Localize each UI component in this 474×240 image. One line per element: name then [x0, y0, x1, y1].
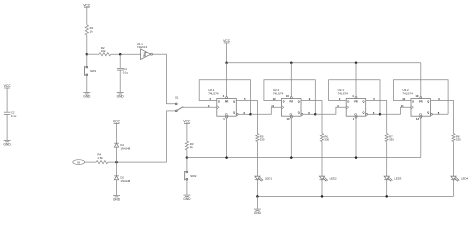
pin CLK U2.1 — [208, 104, 210, 108]
pin D U2.2 — [273, 97, 276, 101]
wire — [453, 180, 455, 197]
wire LED cathode rail — [257, 195, 453, 197]
ground (under SW1) — [83, 93, 91, 99]
node cathode rail GND tap — [256, 195, 259, 198]
node debounce junction — [86, 53, 89, 56]
svg-text:330: 330 — [389, 138, 394, 142]
node CLR net — [186, 156, 189, 159]
node Q-bar junction U2.1 — [249, 113, 252, 116]
svg-text:LED4: LED4 — [461, 176, 468, 180]
wire clock link to next stage — [380, 107, 411, 114]
wire — [256, 142, 258, 177]
resistor R6 330 — [320, 134, 329, 142]
connector IN — [73, 160, 85, 165]
pin PRE bubble U3.1 — [352, 94, 357, 98]
wire — [386, 180, 388, 197]
wire Q output — [236, 101, 257, 134]
pin CLR bubble U3.1 — [353, 116, 357, 121]
pin Q-bar bubble U3.1 — [366, 111, 375, 115]
svg-text:74LS74: 74LS74 — [338, 91, 349, 95]
wire Q-bar to D feedback loop U3.2 — [393, 80, 448, 115]
ground (LED return) — [254, 209, 262, 215]
diode D2 1N4148 — [114, 176, 131, 183]
wire — [86, 7, 88, 25]
ground (under D2) — [113, 196, 121, 202]
svg-text:S1: S1 — [175, 95, 179, 99]
wire — [186, 123, 188, 141]
svg-text:74LS74: 74LS74 — [273, 91, 284, 95]
wire Q output — [366, 101, 387, 134]
wire PRE stub — [420, 63, 422, 97]
svg-text:1N4148: 1N4148 — [120, 179, 130, 183]
svg-text:Q: Q — [298, 112, 300, 115]
svg-text:12: 12 — [273, 97, 276, 101]
svg-text:Q: Q — [362, 112, 364, 115]
svg-text:Q: Q — [233, 100, 235, 103]
pin D U2.1 — [210, 97, 212, 101]
wire CLR stub — [290, 118, 292, 158]
wire Q output — [431, 101, 454, 134]
wire — [85, 161, 97, 163]
wire — [116, 147, 118, 162]
LED LED1 — [255, 176, 273, 181]
ground (under C1) — [117, 93, 125, 99]
wire Q-bar to D feedback loop U2.2 — [264, 80, 315, 115]
svg-text:1k: 1k — [190, 145, 194, 149]
svg-text:SW2: SW2 — [190, 174, 197, 178]
capacitor C2 0.1u — [4, 111, 17, 118]
resistor R2 — [99, 46, 111, 56]
svg-text:LED2: LED2 — [330, 176, 337, 180]
wire — [6, 88, 8, 112]
svg-text:D: D — [348, 100, 350, 103]
flip-flop U3.2 74LS74 — [402, 88, 430, 116]
power VCC (debounce) — [83, 3, 91, 7]
wire Q output — [301, 101, 322, 134]
svg-text:330: 330 — [456, 138, 461, 142]
wire — [183, 106, 217, 108]
wire CLR rail — [187, 157, 421, 159]
wire Q-bar — [303, 113, 316, 115]
power VCC (decoupling branch) — [4, 84, 12, 88]
resistor R8 330 — [452, 134, 461, 142]
wire — [86, 54, 88, 66]
node Q-bar junction U2.2 — [314, 113, 317, 116]
wire — [153, 53, 167, 55]
wire clock link to next stage — [315, 107, 346, 114]
wire — [116, 162, 118, 176]
svg-text:74LS74: 74LS74 — [402, 91, 413, 95]
svg-text:GND: GND — [83, 95, 91, 99]
wire — [111, 53, 141, 55]
wire clock link to next stage — [251, 107, 282, 114]
wire — [186, 180, 188, 195]
wire — [119, 70, 121, 92]
svg-text:330: 330 — [260, 138, 265, 142]
wire — [186, 150, 188, 158]
svg-text:SW1: SW1 — [90, 69, 97, 73]
flip-flop U2.1 74LS74 — [208, 88, 236, 116]
pin Q U2.2 — [309, 97, 311, 101]
svg-text:1N4148: 1N4148 — [120, 146, 130, 150]
wire — [87, 53, 99, 55]
node PRE rail tap U3.1 — [355, 61, 358, 64]
node Q-bar junction U3.1 — [379, 113, 382, 116]
svg-text:12: 12 — [402, 97, 405, 101]
wire CLR stub — [226, 118, 228, 158]
LED LED2 — [319, 176, 337, 181]
wire PRE stub — [355, 63, 357, 97]
svg-text:GND: GND — [183, 197, 191, 201]
capacitor C1 0.1u — [117, 67, 129, 74]
wire — [453, 142, 455, 177]
svg-text:0.1u: 0.1u — [11, 114, 17, 118]
pin Q-bar bubble U3.2 — [430, 111, 439, 115]
node RC junction — [119, 53, 122, 56]
svg-text:PR: PR — [419, 100, 423, 103]
wire — [167, 111, 176, 162]
wire Q-bar to D feedback loop U3.1 — [329, 80, 380, 115]
wire — [226, 43, 228, 63]
svg-text:330: 330 — [324, 138, 329, 142]
resistor R4 — [96, 153, 108, 164]
wire CLR stub — [355, 118, 357, 158]
pin Q U3.2 — [438, 97, 440, 101]
svg-text:PR: PR — [225, 100, 229, 103]
svg-text:0.1u: 0.1u — [123, 70, 129, 74]
svg-text:Q: Q — [298, 100, 300, 103]
node CLR rail tap U2.2 — [290, 156, 293, 159]
svg-text:D: D — [412, 100, 414, 103]
svg-text:GND: GND — [254, 211, 262, 215]
svg-text:11: 11 — [271, 104, 274, 108]
svg-text:10: 10 — [286, 94, 289, 98]
ground (under C2) — [4, 140, 12, 146]
svg-text:13: 13 — [416, 117, 419, 121]
wire — [116, 180, 118, 195]
flip-flop U3.1 74LS74 — [338, 88, 366, 116]
svg-text:Q: Q — [427, 112, 429, 115]
pin PRE bubble U2.2 — [286, 94, 292, 98]
svg-text:D: D — [283, 100, 285, 103]
svg-text:74LS74: 74LS74 — [208, 91, 219, 95]
node clamp junction — [115, 161, 118, 164]
LED LED4 — [451, 176, 469, 181]
pin CLK U2.2 — [271, 104, 274, 108]
svg-text:Q: Q — [233, 112, 235, 115]
svg-text:10k: 10k — [101, 49, 106, 53]
power VCC (reset pull-up) — [183, 120, 191, 124]
node CLR rail tap U3.1 — [355, 156, 358, 159]
wire — [386, 142, 388, 177]
svg-text:1k: 1k — [90, 29, 94, 33]
wire Q-bar — [368, 113, 381, 115]
wire — [256, 196, 258, 209]
svg-text:74HC14: 74HC14 — [137, 45, 148, 49]
wire — [108, 161, 167, 163]
svg-text:1.5k: 1.5k — [97, 156, 103, 160]
svg-text:PR: PR — [354, 100, 358, 103]
wire — [256, 180, 258, 197]
wire PRE stub — [226, 63, 228, 97]
wire — [86, 35, 88, 54]
wire PRE stub — [290, 63, 292, 97]
wire Q-bar — [238, 113, 250, 115]
svg-text:13: 13 — [287, 117, 290, 121]
pin CLR bubble U3.2 — [416, 116, 422, 121]
ground (under SW2) — [183, 195, 191, 201]
svg-text:GND: GND — [117, 95, 125, 99]
pin PRE bubble U3.2 — [415, 94, 421, 98]
svg-text:10: 10 — [415, 94, 418, 98]
switch S1 — [175, 95, 183, 111]
resistor R3 — [185, 141, 194, 150]
svg-text:IN: IN — [77, 160, 80, 164]
node PRE rail tap U2.1 — [225, 61, 228, 64]
wire CLR stub — [420, 118, 422, 158]
wire Q-bar to D feedback loop U2.1 — [199, 80, 250, 115]
svg-text:GND: GND — [113, 198, 121, 202]
pin CLR bubble U2.2 — [287, 116, 293, 121]
LED LED3 — [384, 176, 402, 181]
resistor R5 330 — [256, 134, 265, 142]
pin D U3.2 — [402, 97, 405, 101]
pin Q-bar bubble U2.2 — [301, 111, 310, 115]
node CLR rail tap U2.1 — [225, 156, 228, 159]
pin Q-bar bubble U2.1 — [236, 111, 245, 115]
flip-flop U2.2 74LS74 — [273, 88, 301, 116]
wire Q-bar — [432, 113, 448, 115]
node PRE rail tap U2.2 — [290, 61, 293, 64]
switch SW1 — [85, 66, 97, 76]
pin CLR bubble U2.1 — [223, 116, 227, 121]
pin CLK U3.1 — [337, 104, 339, 108]
wire — [186, 158, 188, 171]
wire — [119, 54, 121, 68]
pin CLK U3.2 — [401, 104, 404, 108]
op-amp U1.1 74HC14 inverter — [137, 42, 153, 59]
svg-text:D: D — [218, 100, 220, 103]
diode D1 1N4148 — [114, 143, 131, 150]
svg-text:LED3: LED3 — [394, 176, 401, 180]
node cathode tap LED3 — [385, 195, 388, 198]
wire — [321, 142, 323, 177]
power VCC (preset rail) — [223, 39, 231, 43]
pin Q U3.1 — [373, 97, 375, 101]
power VCC (clamp) — [113, 120, 121, 124]
wire — [321, 180, 323, 197]
svg-text:LED1: LED1 — [265, 176, 272, 180]
svg-text:11: 11 — [401, 104, 404, 108]
pin PRE bubble U2.1 — [223, 94, 228, 98]
wire PRE rail — [227, 62, 421, 64]
wire — [116, 123, 118, 143]
wire — [167, 54, 176, 103]
svg-text:Q: Q — [362, 100, 364, 103]
pin Q U2.1 — [244, 97, 246, 101]
pin D U3.1 — [339, 97, 341, 101]
svg-text:PR: PR — [290, 100, 294, 103]
svg-text:Q: Q — [427, 100, 429, 103]
resistor R1 — [85, 25, 93, 35]
svg-text:GND: GND — [4, 142, 12, 146]
resistor R7 330 — [385, 134, 394, 142]
wire — [6, 114, 8, 140]
node cathode tap LED2 — [321, 195, 324, 198]
wire — [86, 76, 88, 93]
switch SW2 — [185, 171, 197, 180]
